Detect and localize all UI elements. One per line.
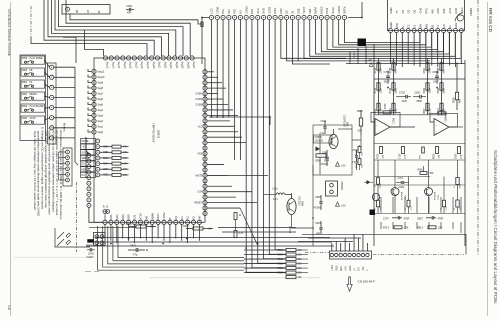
svg-text:K3: K3 (239, 10, 243, 14)
wire into Seg12 pin (85, 30, 104, 56)
svg-text:Seg18: Seg18 (140, 62, 142, 69)
pad MEMO (81, 167, 96, 172)
svg-text:CSLP51507: CSLP51507 (343, 115, 345, 128)
svg-text:GND: GND (349, 265, 352, 271)
svg-text:R808: R808 (438, 67, 440, 73)
analog mid row wires (374, 143, 465, 145)
svg-text:R807: R807 (424, 108, 426, 114)
svg-text:TEST: TEST (302, 7, 306, 14)
keypad column bottom wire (89, 208, 103, 223)
svg-text:R706: R706 (385, 103, 387, 109)
svg-text:47µ: 47µ (133, 253, 138, 257)
svg-text:CODO: CODO (337, 6, 341, 14)
svg-text:5600: 5600 (396, 88, 398, 94)
svg-text:AY: AY (86, 9, 90, 13)
pad SO-I (81, 150, 96, 155)
svg-text:Seg1: Seg1 (98, 127, 104, 129)
svg-text:R505: R505 (316, 161, 322, 163)
keypad aux bus wire (89, 226, 136, 228)
svg-text:0.0047: 0.0047 (87, 257, 95, 259)
svg-text:YWA: YWA (301, 201, 304, 207)
svg-text:DI I: DI I (82, 175, 86, 177)
transistor T801 (425, 188, 433, 196)
svg-text:Seg19: Seg19 (146, 62, 148, 69)
svg-text:PWM: PWM (314, 7, 318, 13)
svg-text:+12V: +12V (331, 265, 334, 271)
svg-text:470P: 470P (460, 153, 462, 159)
svg-text:1SS133: 1SS133 (315, 141, 324, 143)
svg-text:SBTN: SBTN (343, 7, 347, 14)
horizontal k-bus line (209, 116, 270, 118)
resistor R807 8150 (426, 103, 429, 111)
wire with arrow into keypad column (85, 137, 87, 151)
svg-text:C2: C2 (407, 24, 411, 28)
svg-text:4.7µ: 4.7µ (273, 199, 278, 201)
svg-text:GND: GND (389, 7, 393, 13)
svg-text:CH5: CH5 (419, 8, 423, 14)
svg-text:R707: R707 (375, 108, 377, 114)
pad DI I (81, 161, 96, 166)
svg-text:C707: C707 (383, 218, 390, 221)
nested corner wires to resistor ladder (118, 226, 244, 258)
resistor R703 100K (377, 83, 380, 91)
svg-text:KSR70A: KSR70A (401, 191, 404, 200)
wire CN105 right to frame (465, 234, 467, 254)
svg-text:KR0: KR0 (279, 8, 283, 14)
svg-text:C543: C543 (321, 121, 327, 123)
diagonal jumper wire (240, 208, 258, 246)
svg-text:C801: C801 (127, 6, 133, 8)
svg-text:CN 105 84 F: CN 105 84 F (358, 280, 375, 284)
switch S805 PLAY MODE (21, 56, 45, 64)
supply stage box (313, 125, 352, 175)
resistor R806 feedback (438, 112, 446, 115)
svg-text:Seg22: Seg22 (163, 62, 165, 69)
svg-text:Seg4: Seg4 (98, 110, 104, 112)
svg-text:C806: C806 (456, 153, 458, 159)
svg-text:DA5: DA5 (436, 8, 440, 14)
faint fold artifact line (150, 277, 320, 279)
svg-text:Seg5: Seg5 (98, 105, 104, 107)
svg-text:C1: C1 (413, 24, 417, 28)
svg-text:Seg17: Seg17 (134, 62, 136, 69)
svg-text:100P: 100P (433, 82, 439, 84)
svg-text:PF5: PF5 (424, 8, 428, 13)
row end hook wire (348, 2, 362, 18)
ceramic resonator X501 CSB480 (326, 181, 338, 196)
svg-text:4.7K: 4.7K (239, 233, 244, 235)
svg-text:+5V: +5V (341, 205, 346, 208)
svg-text:680P: 680P (417, 101, 423, 103)
svg-text:C541: C541 (130, 244, 137, 248)
svg-text:SO-I: SO-I (82, 152, 87, 154)
svg-text:Seg15: Seg15 (123, 62, 125, 69)
pin 1 of X804 (66, 7, 70, 11)
svg-text:FB500: FB500 (86, 245, 94, 247)
+5V arrow B (336, 202, 340, 206)
op-amp IC701b (434, 119, 449, 136)
svg-text:L501: L501 (273, 189, 279, 191)
svg-text:S803: S803 (22, 70, 28, 72)
svg-text:C546: C546 (315, 197, 321, 199)
svg-text:499: 499 (460, 98, 462, 103)
left pin stub hooks (88, 69, 92, 72)
diode CR502 1SS133 label (314, 135, 333, 143)
svg-text:Seg3: Seg3 (98, 116, 104, 118)
svg-text:X1: X1 (291, 10, 295, 14)
junction dots bottom bus (110, 243, 112, 245)
svg-text:Seg10: Seg10 (98, 77, 105, 79)
svg-text:Seg20: Seg20 (152, 62, 154, 69)
resistor R809 499 (455, 92, 458, 100)
connector box X804 top-left (62, 5, 110, 15)
svg-text:LCD: LCD (210, 8, 214, 13)
svg-text:R713: R713 (383, 227, 390, 230)
svg-text:R809: R809 (454, 97, 456, 103)
svg-text:LRSw: LRSw (162, 212, 166, 219)
mains boundary dash-dot (76, 182, 78, 252)
bottom bus line 1 (95, 237, 330, 239)
wire drop to pad region (63, 37, 76, 63)
svg-text:Seg25: Seg25 (181, 62, 183, 69)
svg-text:R802: R802 (424, 87, 426, 93)
ferrite bead FB500 black body (87, 239, 94, 242)
handwritten coil mark near U802 (455, 13, 464, 22)
svg-text:PPM: PPM (325, 8, 329, 14)
resistor R717 1K (407, 200, 410, 207)
svg-text:S801: S801 (22, 94, 28, 96)
svg-text:45P: 45P (127, 13, 132, 15)
svg-text:B2: B2 (430, 24, 434, 28)
analog bus horizontals (346, 60, 430, 62)
svg-text:Seg23: Seg23 (169, 62, 171, 69)
svg-text:R801: R801 (424, 67, 426, 73)
svg-text:5.5V: 5.5V (197, 192, 202, 194)
U802 bottom pin row (389, 29, 393, 33)
svg-text:DI I: DI I (82, 164, 86, 166)
svg-text:Seg27: Seg27 (192, 62, 194, 69)
analog rail A (378, 58, 380, 115)
svg-text:Seg7: Seg7 (98, 94, 104, 96)
svg-text:GD2: GD2 (454, 22, 458, 28)
svg-text:470P: 470P (438, 218, 444, 221)
svg-text:Seg11: Seg11 (98, 72, 105, 74)
svg-text:T/C: T/C (358, 267, 361, 271)
svg-text:COM1: COM1 (195, 94, 202, 96)
vertical collector wire (74, 67, 76, 162)
svg-text:R575: R575 (126, 224, 132, 226)
svg-text:C1Ω: C1Ω (446, 206, 448, 211)
svg-text:SIvB: SIvB (262, 8, 266, 14)
connector column X802 outline (48, 63, 57, 144)
switch contact diamonds (66, 233, 71, 238)
resistor R801 220K (426, 63, 429, 71)
svg-text:+9V: +9V (368, 60, 373, 62)
svg-text:O2: O2 (407, 9, 411, 13)
svg-text:470P: 470P (404, 153, 406, 159)
svg-text:TMP47C420AF: TMP47C420AF (152, 123, 156, 143)
switch S806 STOP (21, 116, 45, 124)
svg-text:FB: FB (30, 70, 33, 72)
capacitor C801 45P (128, 8, 130, 11)
svg-text:DbCl: DbCl (156, 213, 160, 219)
svg-text:+5V: +5V (341, 165, 346, 168)
analog lower horizontals (374, 184, 465, 186)
X805 left stubs (59, 151, 66, 153)
svg-text:Seg13: Seg13 (111, 62, 113, 69)
svg-text:RR 615 CD: RR 615 CD (488, 8, 493, 33)
svg-text:Seg9: Seg9 (98, 83, 104, 85)
svg-text:COM3: COM3 (195, 105, 202, 107)
wire bundle from port row to display driver (304, 20, 461, 59)
svg-text:Seg21: Seg21 (158, 62, 160, 69)
svg-text:GRUNDIG Service-Technik: GRUNDIG Service-Technik (7, 9, 12, 56)
svg-text:PLAY MODE: PLAY MODE (30, 57, 44, 60)
svg-text:SSTB: SSTB (267, 7, 271, 14)
svg-text:D8821: D8821 (157, 130, 161, 139)
svg-text:+5V: +5V (362, 266, 365, 271)
keypad chain pins (87, 154, 91, 158)
svg-text:XOE: XOE (296, 8, 300, 14)
svg-text:CH1: CH1 (448, 8, 452, 14)
svg-text:D8820: D8820 (469, 8, 473, 16)
svg-text:C3: C3 (442, 24, 446, 28)
svg-text:C811: C811 (433, 71, 439, 74)
svg-text:BuS: BuS (340, 266, 343, 271)
analog wire y=113 (374, 114, 443, 116)
resistor R706 feedback (383, 111, 391, 114)
svg-text:3-8: 3-8 (7, 305, 11, 310)
+5V arrow A (336, 162, 340, 166)
connector CN105 box (330, 251, 372, 259)
U801 port pin row (209, 15, 213, 19)
diode CR502 symbol (316, 147, 321, 152)
svg-text:S805: S805 (22, 58, 28, 60)
svg-text:50K: 50K (430, 173, 434, 175)
risers into analog bus (349, 52, 351, 64)
dash marks left of corners (85, 271, 91, 273)
resistor R523 4.7K (234, 231, 237, 238)
diode CR503 (367, 180, 371, 184)
svg-text:CR: CR (104, 204, 106, 208)
svg-text:R704: R704 (390, 87, 392, 93)
resistor R503 (358, 147, 361, 153)
svg-text:S: S (401, 26, 405, 28)
svg-text:56K: 56K (444, 69, 446, 74)
long stubs MUTE 5.5V RESET (207, 174, 268, 176)
transistor T511 (329, 134, 338, 148)
IC701a feedback loop (371, 112, 400, 127)
svg-text:GND: GND (335, 265, 338, 271)
svg-text:C702: C702 (399, 92, 406, 95)
ferrite bead L802 on stub (201, 22, 203, 27)
wire L501 to T512 (285, 195, 292, 199)
svg-text:11: 11 (448, 25, 452, 28)
svg-text:KR1: KR1 (109, 214, 113, 220)
svg-text:W9C: W9C (346, 122, 348, 127)
svg-text:MUTE: MUTE (196, 175, 203, 177)
analog frame verticals (464, 60, 466, 246)
svg-text:C706: C706 (400, 153, 402, 159)
IC701a output wire (390, 126, 415, 128)
svg-text:S806: S806 (22, 118, 28, 120)
IC701b feedback loop (430, 113, 458, 127)
stubs from lower right pins (207, 163, 224, 165)
analog wire y=213.5 (374, 213, 465, 215)
wire to oscillator stage (292, 20, 330, 64)
svg-text:LF: LF (353, 268, 356, 271)
resistor R707 8150 (377, 103, 380, 111)
svg-text:X05: X05 (442, 8, 446, 13)
U801 left pin column Seg11-Seg0 (92, 69, 96, 73)
stubs from U801 right pins to bus verticals (207, 71, 214, 73)
IC701b output wire (449, 126, 463, 128)
svg-text:P12: P12 (221, 9, 225, 14)
CN105 wires upward (331, 243, 333, 251)
svg-text:C602: C602 (415, 92, 422, 95)
svg-text:W5: W5 (430, 9, 434, 14)
analog rail B (393, 58, 395, 115)
svg-text:KR3: KR3 (121, 214, 125, 220)
svg-text:R702: R702 (375, 67, 377, 73)
resistor R710 5600 (392, 103, 395, 111)
svg-text:R703: R703 (375, 87, 377, 93)
svg-text:SIW: SIW (308, 8, 312, 13)
left margin rule (10, 2, 12, 316)
resistor R802 100K (426, 83, 429, 91)
svg-text:MLC1: MLC1 (392, 118, 394, 125)
svg-text:AB60: AB60 (150, 213, 154, 220)
svg-text:Seg14: Seg14 (117, 62, 119, 69)
mid wires to analog bus (281, 20, 346, 59)
analog mid row components (380, 147, 383, 154)
svg-text:C5: C5 (401, 10, 405, 14)
U801 right pin column (203, 70, 207, 74)
switch bank enclosure (20, 55, 46, 141)
svg-text:KSR70A: KSR70A (434, 191, 437, 200)
svg-text:R708: R708 (390, 67, 392, 73)
wire into L501 (264, 194, 277, 196)
power pad black mark (370, 210, 376, 216)
pad DI I (81, 172, 96, 177)
capacitor C542 0.0047 (89, 248, 91, 251)
svg-text:+VD: +VD (344, 266, 347, 271)
svg-text:PB801: PB801 (354, 51, 356, 58)
svg-text:CON1: CON1 (215, 6, 219, 14)
svg-text:T1: T1 (436, 24, 440, 28)
bus wires dropping to k-bus (211, 20, 213, 117)
svg-text:Seg0: Seg0 (98, 132, 104, 134)
svg-text:GND: GND (389, 22, 393, 28)
svg-text:XB: XB (144, 216, 148, 220)
svg-text:COM2: COM2 (195, 99, 202, 101)
chassis dash-dot boundary (305, 252, 329, 254)
aux pads CR (103, 210, 107, 214)
X802 pins (50, 65, 54, 69)
resistor R808 56K (440, 63, 443, 71)
svg-text:MT: MT (75, 9, 79, 13)
wires switch bank to X802 (45, 60, 50, 67)
svg-text:O2: O2 (285, 10, 289, 14)
pad MODE (81, 138, 96, 143)
left bus wire down to keypad arrow (85, 137, 87, 178)
svg-text:SLAC: SLAC (331, 7, 335, 14)
svg-text:K2: K2 (186, 216, 190, 220)
black capacitor body SB815 (358, 39, 367, 47)
bus wires dropping to mid-board (234, 20, 236, 160)
svg-text:PLAY/PAUSE: PLAY/PAUSE (30, 105, 44, 108)
junction dots on analog bus (378, 63, 380, 65)
analog rails lower (377, 160, 379, 178)
resistor R716 1140 (377, 200, 380, 207)
wire top bus into pin row (202, 18, 209, 65)
pad I-SO (81, 144, 96, 149)
svg-text:Seg24: Seg24 (175, 62, 177, 69)
wire staircase bundle from top edge to IC top pins (31, 37, 147, 56)
transistor T513 (372, 193, 379, 200)
wires from X802 pins right (54, 66, 75, 68)
svg-text:K1: K1 (180, 216, 184, 220)
svg-text:XTIN: XTIN (139, 213, 143, 219)
resistor R810 5600 (440, 103, 443, 111)
svg-text:Seg8: Seg8 (98, 88, 104, 90)
resistor R522 1K (234, 213, 237, 220)
svg-text:R709: R709 (378, 153, 380, 159)
mains switch S901 frame (55, 228, 90, 247)
k-bus corner down (269, 117, 271, 125)
svg-text:220K: 220K (381, 68, 383, 74)
auxiliary key connector X805 (63, 148, 72, 186)
svg-text:Seg26: Seg26 (186, 62, 188, 69)
microcontroller U801 TMP47C420AF outline (94, 58, 205, 222)
svg-text:Y700: Y700 (438, 194, 440, 200)
svg-text:Seg6: Seg6 (98, 99, 104, 101)
analog wire y=176.5 (374, 176, 430, 178)
pad MEMO (81, 155, 96, 160)
resistor R504 (358, 159, 361, 165)
resistor R816 110 (456, 200, 459, 207)
svg-text:K0: K0 (174, 216, 178, 220)
svg-text:VSS: VSS (197, 154, 202, 156)
svg-text:RESET: RESET (194, 203, 202, 205)
svg-text:5600: 5600 (444, 88, 446, 94)
svg-text:P11: P11 (227, 9, 231, 14)
resistor R803 5600 (440, 83, 443, 91)
svg-text:R: R (168, 218, 172, 220)
svg-text:S804: S804 (22, 82, 28, 84)
svg-text:DOut: DOut (273, 7, 277, 13)
svg-text:input meter. All voltages may: input meter. All voltages may vary ± 10 … (33, 131, 37, 211)
bus lines above CN105 (302, 233, 466, 235)
transistor T701 (391, 188, 399, 196)
transistor T512 (287, 199, 296, 215)
analog rail C (427, 58, 429, 115)
resistor R708 56K (392, 63, 395, 71)
resistor R715 550 (377, 178, 380, 185)
bottom bus line 3 (86, 245, 334, 247)
CN105 pins (330, 253, 333, 256)
svg-text:P23: P23 (250, 9, 254, 14)
svg-text:MEMO: MEMO (30, 94, 37, 96)
analog rail D (441, 58, 443, 115)
svg-text:SIvA: SIvA (256, 8, 260, 14)
svg-text:C1Ω: C1Ω (410, 206, 412, 211)
op-amp IC701a (375, 119, 390, 136)
svg-text:Seg2: Seg2 (98, 121, 104, 123)
analog mid bus y=87.5 (374, 78, 465, 80)
svg-text:R901: R901 (418, 170, 424, 172)
wire to analog bus B (297, 20, 299, 61)
